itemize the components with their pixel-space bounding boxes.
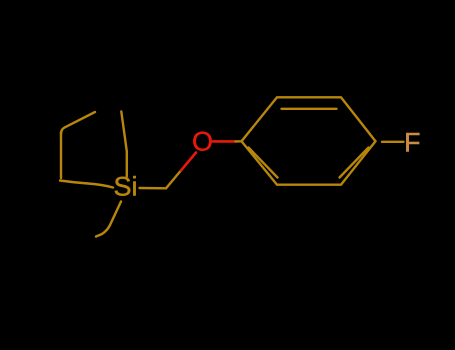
svg-text:O: O (192, 127, 213, 157)
bond Si-CH2 right (140, 187, 167, 190)
bond Si down-left ethyl (96, 202, 121, 237)
bond ring-F (382, 141, 404, 143)
bond O-ring gold half (236, 140, 242, 142)
bond CH3 upper-left diagonal (61, 112, 95, 134)
double bond inner lower-left (249, 148, 278, 178)
bond left vertical (60, 132, 62, 178)
double bond inner lower-right (340, 148, 369, 178)
svg-text:F: F (404, 128, 421, 158)
double bond inner top (282, 108, 337, 110)
bond O-ring red half (213, 140, 236, 143)
svg-text:Si: Si (113, 172, 137, 202)
bond left chain to Si (60, 181, 113, 188)
bond CH2-O upper red half (181, 153, 196, 171)
benzene ring hexagon (242, 97, 376, 184)
bond CH2-O lower gold half (166, 170, 181, 188)
bond Si-CH2CH3 up (ethyl upper segment) (121, 112, 127, 177)
